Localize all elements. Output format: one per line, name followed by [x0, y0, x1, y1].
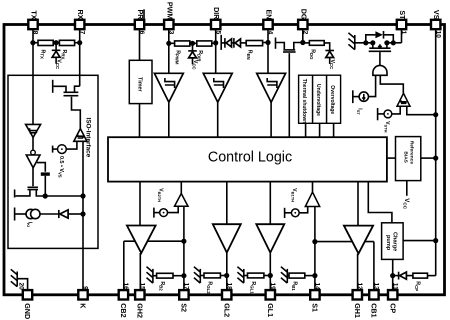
svg-text:RDIR: RDIR: [197, 50, 203, 62]
Reference BIAS block: [396, 137, 421, 181]
svg-text:RGL2: RGL2: [206, 281, 212, 294]
pin EN (4): [263, 10, 273, 35]
node S2 bottom: [181, 273, 186, 278]
svg-text:GL1: GL1: [266, 303, 275, 317]
wire RRX to RX node: [74, 42, 80, 44]
driver GH2: [127, 226, 156, 254]
wire chassis to ST rail: [355, 42, 373, 44]
wire Timer to Control Logic: [139, 104, 141, 138]
wire TX node to RTX: [33, 42, 38, 44]
inverter 2 bubble: [31, 150, 36, 155]
wire Control Logic to Reference BIAS: [387, 157, 396, 159]
wire GND pin stub: [17, 279, 27, 291]
wire Undervoltage to Control Logic: [319, 123, 321, 137]
wire GH1 driver output to pin: [357, 254, 359, 291]
svg-text:RPWM: RPWM: [174, 50, 180, 65]
current source IST: [352, 90, 354, 103]
wire Reference BIAS to VS: [421, 157, 436, 159]
wire ST rail right: [387, 42, 402, 44]
node CP: [390, 273, 395, 278]
svg-text:RCP: RCP: [414, 281, 420, 291]
wire comparator U5 to Control Logic: [312, 182, 314, 192]
resistor RB1: [287, 275, 289, 277]
svg-text:DG: DG: [299, 9, 308, 20]
pin K (9): [78, 286, 88, 309]
node M2 drain: [43, 193, 48, 198]
node M4 left contact: [370, 40, 375, 45]
svg-text:TX: TX: [30, 10, 39, 19]
ISO-Interface block box: [8, 75, 98, 248]
wire RX pin down: [79, 29, 81, 86]
wire VB1TH to comparator U5: [299, 207, 308, 213]
Control Logic block: [108, 137, 387, 181]
Schmitt trigger buffer PWM: [154, 73, 183, 102]
wire inverter2 to capacitor: [37, 163, 46, 172]
wire RDG to clamp diode: [324, 42, 330, 44]
wire capacitor to drain node: [44, 176, 46, 196]
voltage source VSTH: [377, 108, 379, 120]
transistor M1 (ISO PMOS): [75, 86, 80, 92]
wire RDIR to DIR node: [212, 42, 216, 44]
wire EN buffer to Control Logic: [270, 102, 272, 137]
wire ST pin down: [401, 29, 403, 43]
svg-text:Undervoltage: Undervoltage: [315, 84, 321, 116]
wire inverter2 output to NMOS gate: [32, 168, 34, 186]
svg-text:GND: GND: [23, 303, 32, 319]
pin GH1 (12): [353, 282, 363, 318]
svg-text:20: 20: [17, 282, 24, 290]
wire AND input B to comparator output: [380, 75, 403, 93]
node K line lower: [80, 211, 85, 216]
capacitor in ISO block: [41, 172, 50, 175]
resistor RGL1: [244, 275, 248, 277]
resistor RTX: [38, 40, 53, 45]
wire IKI to diode: [40, 213, 58, 215]
driver GL1: [256, 224, 284, 252]
pin GL1 (19): [266, 282, 276, 317]
diode to VCC at DG: [329, 43, 331, 50]
wire Control Logic to GH1 driver: [357, 182, 359, 226]
wire RGL2 to GL2 line: [220, 275, 226, 277]
node GL2 bottom: [224, 273, 229, 278]
svg-text:CP: CP: [388, 303, 397, 313]
svg-text:VB1TH: VB1TH: [291, 188, 297, 202]
AND gate U2: [373, 65, 387, 75]
resistor RRX: [59, 40, 74, 45]
resistor REN: [246, 41, 262, 46]
chassis ground at RB1: [286, 269, 288, 283]
svg-text:CB1: CB1: [370, 303, 379, 317]
wire PWM node to RPWM: [169, 42, 175, 44]
svg-text:pump: pump: [385, 235, 391, 251]
wire op-amp minus input to 0.5VVS source: [66, 141, 77, 149]
wire RTX to VCC-diode node: [53, 42, 59, 44]
wire CP node to diode: [393, 275, 398, 277]
driver GL2: [213, 224, 241, 252]
node S1 rail: [312, 239, 317, 244]
svg-text:RRX: RRX: [61, 50, 67, 60]
comparator U5 bridge 1: [305, 192, 319, 207]
wire D3 to D4: [232, 42, 234, 44]
svg-text:S1: S1: [311, 303, 320, 312]
svg-text:ST: ST: [398, 10, 407, 20]
inverter 1 (Schmitt) in ISO block: [26, 124, 41, 137]
node PWM: [166, 41, 171, 46]
wire Charge pump to CP pin: [392, 259, 394, 290]
wire PWM buffer to Control Logic: [168, 102, 170, 137]
svg-text:RTX: RTX: [39, 50, 45, 59]
svg-text:CB2: CB2: [119, 303, 128, 317]
wire DIR pin to Schmitt buffer: [215, 29, 217, 74]
chassis ground at RGL2: [199, 269, 201, 283]
svg-text:VCC: VCC: [329, 60, 335, 70]
op-amp U1 in ISO block: [74, 129, 87, 142]
wire VSTH to comparator minus input: [392, 106, 400, 114]
driver GH1: [344, 226, 373, 254]
wire DIR buffer to Control Logic: [217, 102, 219, 137]
pin PR (6): [135, 9, 145, 34]
node S1 bottom: [312, 273, 317, 278]
voltage source VB2TH: [153, 208, 155, 218]
svg-text:Control Logic: Control Logic: [208, 150, 292, 166]
node TX/RX mid: [54, 40, 59, 45]
node EN: [265, 40, 270, 45]
diode to VCC at TX/RX divider: [55, 43, 57, 50]
chassis ground at RB2: [152, 269, 154, 283]
terminal bar at EN: [275, 38, 277, 49]
Overvoltage block: [327, 75, 341, 123]
svg-text:IST: IST: [356, 108, 362, 115]
wire AND input A to IST: [369, 75, 376, 96]
transistor M2 (ISO NMOS): [28, 186, 39, 188]
Schmitt trigger buffer EN: [257, 73, 286, 102]
svg-text:VB2TH: VB2TH: [157, 188, 163, 202]
wire Control Logic to GH2 driver: [139, 182, 141, 226]
svg-text:Overvoltage: Overvoltage: [329, 85, 335, 114]
resistor RDG: [303, 42, 310, 44]
pin S1 (14): [310, 282, 320, 312]
wire S2 sense line: [183, 206, 185, 290]
Thermal shutdown block: [299, 75, 313, 123]
svg-text:VCC: VCC: [55, 59, 61, 69]
node M4 right contact: [384, 40, 389, 45]
Schmitt trigger buffer DIR: [203, 73, 232, 102]
wire comparator plus input to VS line: [407, 106, 436, 114]
svg-text:GH1: GH1: [353, 303, 362, 318]
pin PWM (3): [164, 2, 174, 35]
svg-text:RB2: RB2: [159, 281, 165, 291]
wire PWM pin to Schmitt buffer: [168, 29, 170, 74]
svg-text:VS: VS: [432, 10, 441, 20]
wire bar to transistor M3: [276, 43, 285, 50]
node ST rail left tap: [363, 40, 368, 45]
pin RX (7): [75, 10, 85, 35]
svg-text:EN: EN: [265, 10, 274, 20]
node ST rail right tap: [391, 40, 396, 45]
wire REN to EN node: [263, 42, 268, 44]
pin CB1 (13): [369, 282, 379, 317]
wire RCP to VS line: [428, 275, 436, 277]
body diode of M4: [366, 35, 376, 43]
wire S1 sense line: [314, 207, 316, 291]
wire DG pin down: [302, 29, 304, 43]
diode D4 (to DIR): [233, 38, 235, 48]
voltage source VB1TH: [284, 208, 286, 218]
node VS sense: [433, 112, 438, 117]
diode in ISO K path: [58, 210, 60, 218]
voltage source 0.5*VVS: [52, 146, 54, 153]
chassis ground at GND pin: [16, 272, 18, 287]
pin DIR (5): [211, 7, 221, 34]
bootstrap rail bridge 2: [124, 240, 184, 242]
comparator U3 (status): [397, 93, 410, 106]
svg-text:GL2: GL2: [222, 303, 231, 317]
Timer block: [129, 60, 152, 103]
wire RPWM to mid node: [190, 42, 197, 44]
node VS reference tap: [433, 156, 438, 161]
inverter 2 in ISO block: [32, 137, 34, 150]
svg-text:RX: RX: [76, 10, 85, 20]
comparator U4 bridge 2: [175, 194, 189, 207]
wire RGL1 to GL1 line: [264, 275, 270, 277]
wire D4 to REN: [241, 42, 247, 44]
node TX: [30, 40, 35, 45]
Undervoltage block: [313, 75, 327, 123]
wire PR pin to Timer: [139, 29, 141, 61]
diode D5 at CP: [398, 272, 400, 280]
wire M4 gate to AND gate: [379, 52, 381, 66]
wire EN pin to Schmitt buffer: [267, 29, 269, 74]
wire RB2 to S2 line: [173, 275, 184, 277]
Charge pump block: [382, 223, 404, 260]
node K line upper: [80, 193, 85, 198]
node S2 rail: [181, 239, 186, 244]
chassis ground at ST switch: [354, 35, 356, 50]
svg-text:RDG: RDG: [309, 49, 315, 60]
resistor RDIR: [197, 41, 212, 46]
pin TX (8): [28, 10, 38, 34]
wire D5 to RCP: [406, 275, 413, 277]
svg-text:K: K: [79, 303, 88, 309]
wire GL1 driver output to pin: [269, 253, 271, 291]
wire comparator U4 to Control Logic: [180, 182, 182, 194]
wire GL2 driver output to pin: [226, 253, 228, 291]
pin DG (2): [298, 9, 308, 35]
node GL1 bottom: [268, 273, 273, 278]
svg-text:0.5 • VVS: 0.5 • VVS: [57, 156, 63, 178]
wire bar to diode chain: [221, 42, 225, 44]
chassis ground at RGL1: [243, 269, 245, 283]
svg-text:IKI: IKI: [26, 222, 32, 227]
wire VB2TH to comparator U4: [168, 206, 179, 212]
resistor RB2: [153, 275, 157, 277]
wire diode to K line: [68, 213, 83, 215]
svg-text:PWM: PWM: [165, 2, 174, 20]
wire rail to CB1 pin: [373, 242, 375, 291]
current source IKI: [14, 208, 16, 221]
resistor RCP: [413, 273, 428, 278]
wire Thermal shutdown to Control Logic: [305, 123, 307, 137]
pin CB2 (16): [119, 282, 129, 317]
pin GH2 (15): [135, 282, 145, 318]
pin CP (11): [388, 283, 398, 314]
svg-text:RGL1: RGL1: [250, 281, 256, 294]
svg-text:S2: S2: [180, 303, 189, 312]
wire Control Logic to GL2 driver: [226, 182, 228, 225]
diode D3 (to DIR): [224, 38, 226, 48]
resistor RPWM: [175, 41, 190, 46]
diode to VCC at PWM/DIR divider: [192, 43, 194, 50]
wire Control Logic to Charge pump: [368, 182, 392, 223]
wire GH2 driver output to pin: [139, 253, 141, 291]
node PWM/DIR mid: [190, 41, 195, 46]
svg-text:Timer: Timer: [136, 77, 142, 92]
wire M3 gate to Control Logic: [288, 53, 290, 137]
svg-text:REN: REN: [246, 50, 252, 60]
pin VS (10): [431, 10, 441, 38]
svg-text:RB1: RB1: [291, 281, 297, 291]
svg-text:GH2: GH2: [135, 303, 144, 318]
node RX: [77, 40, 82, 45]
wire RB1 to S1 line: [305, 275, 315, 277]
svg-text:Charge: Charge: [392, 232, 398, 251]
pin ST (1): [397, 10, 407, 34]
pin S2 (17): [179, 282, 189, 312]
transistor M4 (ST high-side switch): [372, 43, 374, 48]
svg-text:VSTH: VSTH: [384, 121, 390, 132]
wire M2 drain to K line: [45, 195, 83, 197]
terminal bar at DIR clamp chain: [220, 35, 222, 50]
wire TX pin to ISO inverter: [32, 29, 34, 125]
wire Charge pump to VS: [403, 240, 436, 242]
node VS charge pump tap: [433, 238, 438, 243]
wire Overvoltage to Control Logic: [333, 123, 335, 137]
node DG: [300, 40, 305, 45]
wire Control Logic to GL1 driver: [269, 182, 271, 225]
bootstrap rail bridge 1: [315, 241, 374, 243]
svg-text:Thermal shutdown: Thermal shutdown: [301, 79, 307, 123]
svg-text:DIR: DIR: [212, 7, 221, 20]
wire Reference BIAS VCC output: [406, 181, 408, 196]
wire CB2 pin to rail: [123, 241, 125, 290]
pin GL2 (18): [222, 282, 232, 317]
svg-text:Reference: Reference: [409, 141, 415, 165]
wire VS pin line: [435, 29, 437, 276]
svg-text:BIAS: BIAS: [402, 151, 408, 163]
pin GND (20): [17, 282, 32, 319]
resistor RGL2: [200, 275, 204, 277]
wire op-amp plus input / K sense line: [82, 141, 84, 290]
wire op-amp output to M1 gate: [72, 97, 81, 129]
node DIR: [213, 40, 218, 45]
transistor M3 (EN/DG): [283, 49, 295, 51]
